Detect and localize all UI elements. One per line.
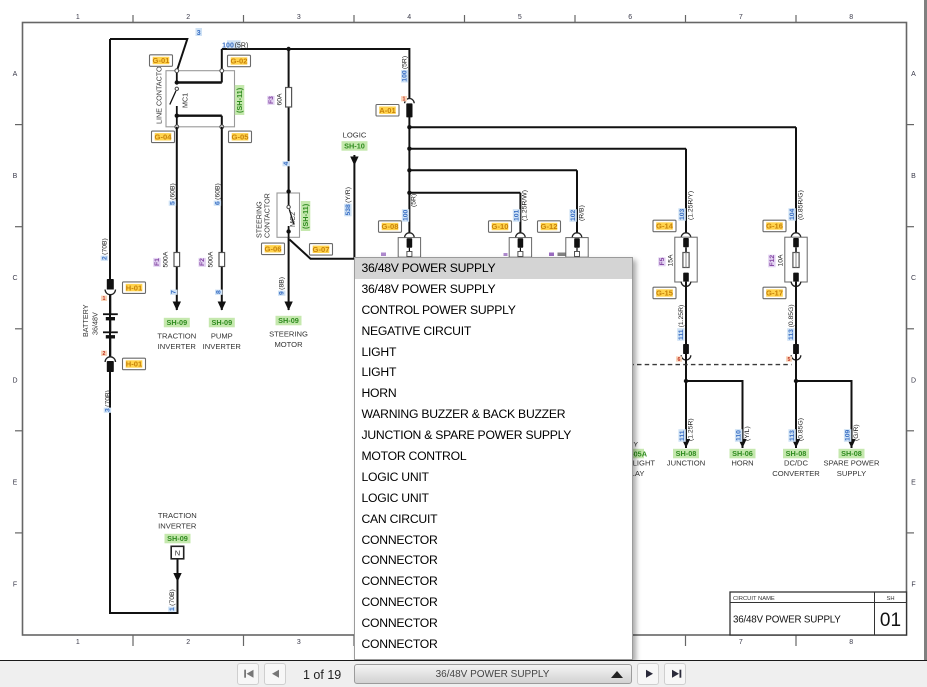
svg-text:PUMP: PUMP — [211, 332, 233, 341]
svg-text:(60B): (60B) — [214, 183, 221, 200]
svg-text:113: 113 — [788, 329, 795, 340]
svg-text:SUPPLY: SUPPLY — [837, 469, 866, 478]
svg-text:CONVERTER: CONVERTER — [772, 469, 820, 478]
svg-text:D: D — [911, 377, 916, 384]
svg-text:DC/DC: DC/DC — [784, 459, 809, 468]
svg-text:101: 101 — [513, 209, 520, 221]
svg-text:1: 1 — [76, 639, 80, 646]
svg-text:(0.85G): (0.85G) — [788, 304, 795, 327]
svg-text:6: 6 — [628, 14, 632, 21]
svg-text:5: 5 — [169, 201, 176, 205]
svg-text:1: 1 — [76, 14, 80, 21]
svg-text:(1.25R): (1.25R) — [678, 305, 685, 328]
svg-text:F5: F5 — [659, 257, 666, 265]
svg-text:STEERING: STEERING — [269, 330, 308, 339]
svg-text:CONTACTOR: CONTACTOR — [263, 193, 272, 238]
svg-text:7: 7 — [739, 14, 743, 21]
svg-text:G-05: G-05 — [232, 133, 250, 142]
svg-text:(1.25R/Y): (1.25R/Y) — [687, 191, 694, 220]
svg-text:(0.85G): (0.85G) — [797, 418, 804, 441]
svg-text:MC2: MC2 — [288, 212, 297, 227]
svg-text:G-02: G-02 — [231, 57, 248, 66]
svg-text:MOTOR: MOTOR — [274, 340, 303, 349]
svg-text:A: A — [13, 71, 18, 78]
svg-text:3: 3 — [104, 408, 111, 412]
svg-text:5: 5 — [518, 14, 522, 21]
svg-text:5: 5 — [788, 357, 791, 363]
svg-text:(1.25R/W): (1.25R/W) — [522, 190, 529, 221]
svg-text:100: 100 — [402, 209, 409, 221]
svg-text:G-06: G-06 — [265, 245, 282, 254]
svg-text:A-01: A-01 — [379, 106, 396, 115]
svg-text:7: 7 — [171, 290, 178, 294]
svg-text:A: A — [911, 71, 916, 78]
svg-text:103: 103 — [679, 208, 686, 220]
svg-text:(1.25R): (1.25R) — [687, 418, 694, 441]
svg-text:INVERTER: INVERTER — [158, 522, 197, 531]
svg-text:1: 1 — [103, 296, 106, 302]
svg-text:E: E — [911, 479, 916, 486]
svg-text:104: 104 — [789, 208, 796, 220]
svg-text:3: 3 — [197, 30, 201, 37]
svg-text:MC1: MC1 — [181, 93, 190, 108]
svg-text:SH-06: SH-06 — [732, 449, 753, 458]
svg-text:100: 100 — [402, 70, 409, 82]
svg-text:N: N — [175, 549, 180, 558]
svg-text:(0.85R/G): (0.85R/G) — [797, 190, 804, 220]
svg-text:60A: 60A — [276, 93, 283, 106]
svg-text:8: 8 — [849, 639, 853, 646]
svg-text:INVERTER: INVERTER — [158, 342, 197, 351]
svg-text:6: 6 — [214, 201, 221, 205]
svg-text:LINE CONTACTOR: LINE CONTACTOR — [154, 61, 163, 124]
svg-text:(5R): (5R) — [402, 56, 409, 69]
svg-text:4: 4 — [283, 162, 290, 166]
svg-text:G-04: G-04 — [155, 133, 173, 142]
svg-text:G-17: G-17 — [766, 289, 783, 298]
svg-text:3: 3 — [297, 639, 301, 646]
svg-text:G-01: G-01 — [153, 56, 171, 65]
svg-text:(SH-11): (SH-11) — [235, 87, 244, 113]
svg-text:2: 2 — [186, 639, 190, 646]
svg-text:(Y/L): (Y/L) — [744, 426, 751, 441]
svg-text:110: 110 — [736, 430, 743, 441]
svg-text:F: F — [13, 582, 17, 589]
svg-text:B: B — [13, 173, 18, 180]
svg-text:TRACTION: TRACTION — [157, 332, 196, 341]
svg-text:(Y/R): (Y/R) — [345, 187, 352, 203]
svg-text:SH-09: SH-09 — [211, 318, 232, 327]
svg-text:SH-08: SH-08 — [786, 449, 807, 458]
svg-text:102: 102 — [570, 209, 577, 221]
svg-text:TRACTION: TRACTION — [158, 511, 197, 520]
svg-text:SH-09: SH-09 — [166, 318, 187, 327]
svg-text:01: 01 — [880, 610, 901, 631]
svg-text:JUNCTION: JUNCTION — [667, 459, 705, 468]
svg-text:SH-09: SH-09 — [167, 534, 188, 543]
svg-text:Y: Y — [634, 442, 639, 449]
svg-text:C: C — [911, 275, 916, 282]
svg-text:LOGIC: LOGIC — [343, 131, 367, 140]
svg-text:F: F — [911, 582, 915, 589]
svg-text:36/48V: 36/48V — [91, 312, 100, 335]
svg-text:8: 8 — [216, 290, 223, 294]
svg-text:G-14: G-14 — [656, 222, 674, 231]
svg-text:111: 111 — [679, 430, 686, 441]
svg-text:(8B): (8B) — [279, 277, 286, 290]
svg-text:F2: F2 — [199, 258, 206, 266]
svg-text:500A: 500A — [208, 251, 215, 267]
svg-text:7: 7 — [739, 639, 743, 646]
svg-text:SH-08: SH-08 — [676, 449, 697, 458]
svg-text:1: 1 — [403, 97, 406, 103]
svg-text:HORN: HORN — [731, 459, 753, 468]
svg-text:G-08: G-08 — [382, 222, 399, 231]
svg-text:(5R): (5R) — [235, 42, 249, 49]
svg-text:36/48V POWER SUPPLY: 36/48V POWER SUPPLY — [733, 615, 841, 626]
svg-text:CIRCUIT NAME: CIRCUIT NAME — [733, 596, 775, 602]
svg-text:1: 1 — [169, 607, 176, 611]
svg-text:F12: F12 — [769, 255, 776, 267]
svg-text:G-16: G-16 — [766, 222, 783, 231]
svg-text:E: E — [13, 479, 18, 486]
svg-text:8: 8 — [849, 14, 853, 21]
svg-text:(70B): (70B) — [104, 390, 111, 407]
svg-text:2: 2 — [186, 14, 190, 21]
svg-text:D: D — [12, 377, 17, 384]
svg-text:9: 9 — [279, 291, 286, 295]
svg-text:G-15: G-15 — [656, 289, 674, 298]
svg-text:SPARE POWER: SPARE POWER — [824, 459, 880, 468]
svg-text:C: C — [12, 275, 17, 282]
svg-text:F1: F1 — [154, 258, 161, 266]
svg-text:111: 111 — [678, 329, 685, 340]
svg-text:2: 2 — [101, 256, 108, 260]
svg-text:SH-09: SH-09 — [278, 316, 299, 325]
svg-text:109: 109 — [845, 429, 852, 441]
svg-text:B: B — [911, 173, 916, 180]
svg-text:G-12: G-12 — [541, 222, 558, 231]
svg-text:F3: F3 — [268, 96, 275, 104]
svg-text:(70B): (70B) — [169, 589, 176, 606]
svg-text:H-01: H-01 — [126, 283, 143, 292]
svg-text:(60B): (60B) — [169, 183, 176, 200]
svg-text:(SH-11): (SH-11) — [301, 203, 310, 229]
svg-text:(G/R): (G/R) — [853, 424, 860, 441]
svg-text:(5R): (5R) — [411, 194, 418, 207]
svg-text:(70B): (70B) — [101, 238, 108, 255]
svg-text:G-10: G-10 — [492, 222, 509, 231]
svg-text:113: 113 — [789, 430, 796, 441]
svg-text:H-01: H-01 — [126, 360, 143, 369]
svg-text:100: 100 — [222, 42, 234, 49]
svg-text:2: 2 — [103, 351, 106, 357]
svg-text:500A: 500A — [162, 251, 169, 267]
svg-text:SH-08: SH-08 — [841, 449, 862, 458]
svg-text:(R/B): (R/B) — [578, 205, 585, 221]
svg-text:SH-10: SH-10 — [344, 142, 365, 151]
svg-text:INVERTER: INVERTER — [203, 342, 242, 351]
svg-text:10A: 10A — [777, 254, 784, 267]
svg-text:4: 4 — [407, 14, 411, 21]
svg-text:G-07: G-07 — [313, 245, 330, 254]
svg-text:6: 6 — [678, 357, 681, 363]
svg-text:SH: SH — [886, 596, 894, 602]
svg-text:15A: 15A — [667, 254, 674, 267]
svg-text:3: 3 — [297, 14, 301, 21]
svg-text:538: 538 — [345, 204, 352, 216]
svg-text:BATTERY: BATTERY — [81, 304, 90, 337]
